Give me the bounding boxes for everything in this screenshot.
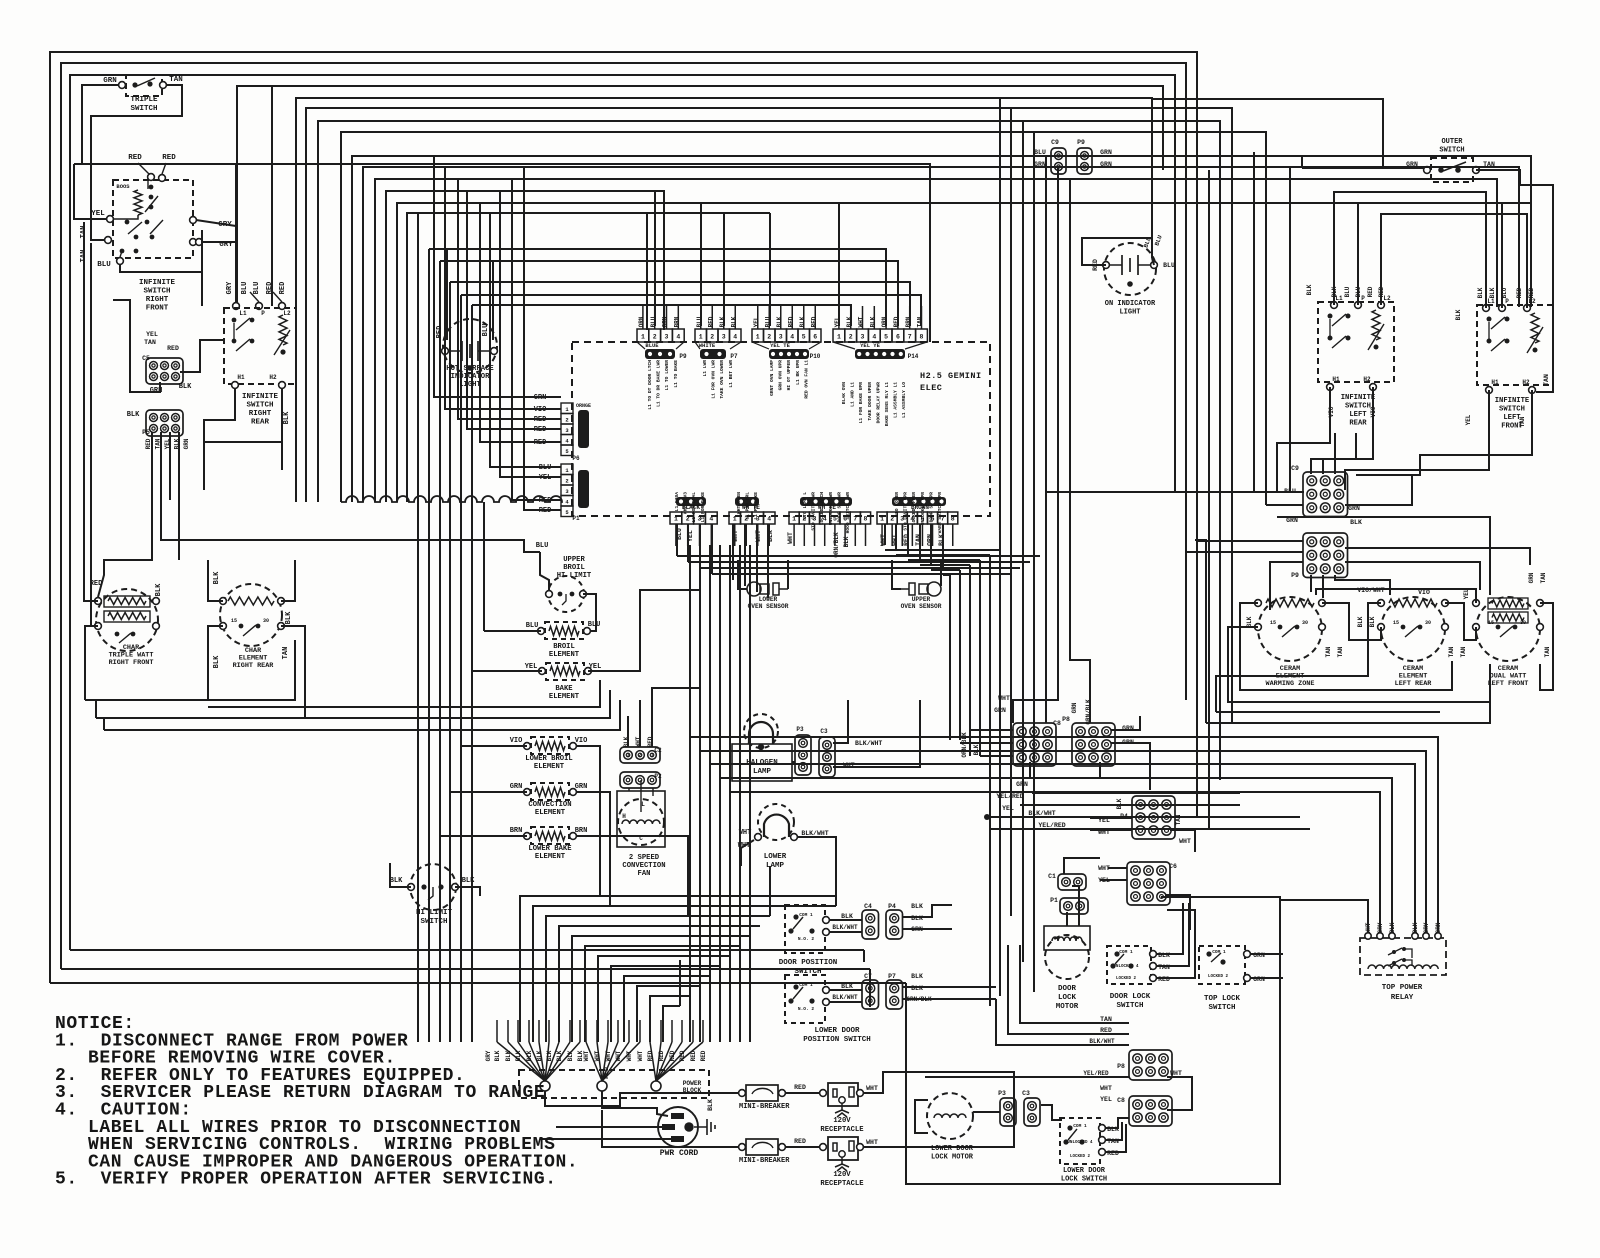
wire ceram interconnects — [1322, 603, 1381, 640]
svg-text:MINI-BREAKER: MINI-BREAKER — [739, 1103, 790, 1111]
svg-text:BAKE SENS RLY L1: BAKE SENS RLY L1 — [884, 382, 890, 426]
svg-text:WHT: WHT — [637, 1050, 644, 1061]
power block terminal 1 — [540, 1081, 550, 1091]
svg-text:L1 TO LOWER: L1 TO LOWER — [664, 360, 670, 391]
wire relay return bus 2 — [699, 545, 701, 1042]
svg-text:C5: C5 — [142, 355, 150, 362]
wire top bus 12 — [386, 191, 664, 502]
svg-text:TRIPLE: TRIPLE — [130, 96, 158, 104]
svg-text:RED: RED — [1367, 286, 1374, 297]
svg-text:4: 4 — [733, 334, 737, 341]
svg-text:LOWER DOOR: LOWER DOOR — [931, 1145, 974, 1153]
wire left rear H2 drop — [1311, 387, 1373, 474]
svg-text:GRNT OVN LAMP: GRNT OVN LAMP — [769, 360, 775, 396]
wire P8a right feeds — [1111, 716, 1140, 730]
svg-text:C8: C8 — [1053, 720, 1061, 727]
svg-text:WHT: WHT — [583, 1050, 590, 1061]
wire RED leader to L2 — [273, 292, 282, 302]
wire P9c drop1 — [1310, 575, 1312, 592]
svg-text:BLK: BLK — [179, 383, 192, 391]
wire right bundle 4 — [1033, 132, 1035, 992]
wire crossing bus y492 — [1046, 491, 1304, 493]
svg-text:L1: L1 — [239, 310, 247, 317]
svg-text:8: 8 — [920, 334, 924, 341]
svg-text:BRN: BRN — [575, 827, 588, 835]
wire lower broil loop — [461, 745, 527, 747]
svg-text:FAN: FAN — [638, 870, 651, 878]
wire top bus 6 — [306, 108, 1232, 723]
svg-text:1: 1 — [792, 516, 796, 523]
connector P5b side strip YELLOW — [561, 464, 573, 475]
wire ceram left loops — [1240, 603, 1452, 690]
svg-text:GRN: GRN — [1100, 149, 1112, 156]
wire pwr cord to block — [602, 1091, 668, 1116]
wire P7b BLK out — [903, 986, 996, 988]
wire right rear H1 drop — [204, 389, 235, 442]
svg-text:RED: RED — [788, 316, 795, 327]
svg-text:YEL: YEL — [1002, 805, 1014, 812]
wire P9c left feed 2 — [1186, 551, 1303, 553]
wire P9 GRN out right 2 — [1094, 167, 1519, 307]
120V receptacle J2 — [828, 1137, 858, 1160]
svg-text:HI OT UPPER: HI OT UPPER — [786, 360, 792, 391]
wire lower bake return — [577, 836, 688, 916]
svg-text:TAN: TAN — [1100, 1016, 1112, 1023]
svg-text:BLK: BLK — [911, 903, 923, 910]
svg-text:POWER: POWER — [683, 1080, 702, 1087]
svg-text:RED: RED — [794, 1138, 806, 1145]
wire outer switch GRN stub — [1302, 167, 1411, 169]
wire top bus 8 — [341, 132, 1266, 505]
wire outer switch TAN out — [1476, 170, 1553, 392]
svg-text:OVEN SENSOR: OVEN SENSOR — [901, 603, 942, 610]
infinite switch right rear SW3 terminals L1 P L2 — [233, 303, 240, 310]
wire hot surface indicator feed right — [492, 261, 494, 340]
svg-text:BAKE: BAKE — [555, 685, 573, 693]
svg-text:GRN: GRN — [1034, 161, 1046, 168]
svg-text:DOOR: DOOR — [1058, 985, 1077, 993]
svg-text:RED: RED — [436, 326, 444, 339]
connector P10 (door lock motor) — [1060, 898, 1088, 914]
wire fan-in WHT group — [586, 1042, 602, 1081]
svg-text:GRN OVN UPR: GRN OVN UPR — [778, 360, 784, 391]
svg-text:L1 AND L1: L1 AND L1 — [850, 382, 856, 407]
svg-text:SWITCH: SWITCH — [1116, 1002, 1143, 1010]
top lock switch SW9 — [1199, 946, 1245, 984]
svg-text:RED: RED — [903, 534, 910, 546]
wire left drop to loops — [95, 700, 97, 718]
wire bottom strip pin stubs — [675, 524, 677, 546]
wire board bottom bus 4 — [712, 573, 1010, 575]
wire P9c out right — [1345, 548, 1530, 565]
svg-text:COM 1: COM 1 — [1212, 949, 1226, 955]
svg-text:YEL: YEL — [1465, 414, 1472, 425]
connector C3 (halogen) — [819, 737, 835, 777]
svg-text:L1 POR BRL: L1 POR BRL — [745, 492, 751, 520]
svg-text:C2: C2 — [654, 747, 662, 754]
connector C3b (2-pin) — [1024, 1098, 1040, 1126]
svg-text:PWR CORD: PWR CORD — [660, 1149, 699, 1158]
wire pwr cord left feeds — [556, 1126, 662, 1128]
svg-text:SWITCH: SWITCH — [1439, 147, 1464, 155]
wire board bottom drop 3 — [699, 524, 701, 568]
svg-text:GRN: GRN — [510, 783, 523, 791]
svg-text:HI LIMIT: HI LIMIT — [416, 909, 453, 917]
connector C8 (3x3) — [1013, 723, 1056, 766]
wire center vertical D — [449, 282, 451, 1042]
wire P4b GRN out — [903, 928, 952, 930]
wire C5 bottom loop — [113, 300, 160, 392]
wire center column extra 1 — [739, 545, 741, 1042]
wire breaker2 to receptacle2 — [786, 1146, 820, 1148]
on indicator light DS4 — [1104, 243, 1156, 295]
char element right rear E2 — [220, 584, 282, 646]
svg-text:BLU: BLU — [526, 622, 539, 630]
wire bottom mesh 1 — [520, 896, 836, 1042]
wire C3 BLK/WHT — [833, 700, 848, 743]
wire left switch feed 3 — [1381, 214, 1527, 308]
svg-text:L1 FOR DUAL: L1 FOR DUAL — [691, 492, 697, 523]
svg-text:RED: RED — [658, 1050, 665, 1061]
wire char rear left terminals — [208, 560, 223, 601]
wire RED leader 1 — [138, 163, 149, 174]
svg-text:P8: P8 — [1062, 716, 1070, 723]
wire strip pin drop e — [838, 203, 840, 326]
wire border 2 bottom — [61, 968, 870, 970]
wire indicator left feed — [1082, 238, 1152, 265]
wire C3b out — [1041, 1105, 1062, 1120]
svg-text:BLK: BLK — [505, 1050, 512, 1061]
svg-text:TAN: TAN — [1519, 416, 1526, 427]
wire bake left drop — [472, 670, 542, 672]
wire P5 riser 4 — [178, 432, 180, 560]
svg-text:WHT: WHT — [998, 695, 1010, 702]
svg-text:P7: P7 — [888, 973, 896, 980]
svg-text:INFINITE: INFINITE — [1495, 397, 1530, 405]
wire block to breaker1 — [545, 1091, 738, 1106]
wire char front left terminals — [84, 222, 98, 601]
wire lower lamp left — [741, 840, 754, 866]
svg-text:4: 4 — [676, 334, 680, 341]
ceram element left rear E4 — [1381, 597, 1445, 661]
svg-text:TAN: TAN — [1460, 646, 1467, 657]
wire C6 feed 2 — [1100, 879, 1127, 881]
svg-text:MOTOR: MOTOR — [1056, 1003, 1079, 1011]
svg-text:30: 30 — [1425, 620, 1431, 626]
wire lower lock switch stubs — [1106, 1118, 1129, 1128]
svg-text:COM 1: COM 1 — [1073, 1123, 1087, 1129]
svg-text:L1 TO DT DOOR LTCH: L1 TO DT DOOR LTCH — [647, 360, 653, 410]
svg-text:P9: P9 — [1077, 139, 1085, 146]
wire C5 to switch loop — [180, 340, 224, 372]
wire char loop bottom 1 — [85, 640, 295, 700]
svg-text:RIGHT: RIGHT — [146, 296, 169, 304]
wire top bus 14 — [407, 213, 770, 502]
wire fan column risers — [496, 1020, 498, 1042]
lower door position switch SW7 — [785, 975, 825, 1023]
svg-text:3: 3 — [722, 334, 726, 341]
svg-text:BLK: BLK — [1116, 798, 1123, 809]
svg-text:BLK: BLK — [799, 316, 806, 327]
wire ceram loop 3 — [1216, 603, 1381, 712]
svg-text:LOWER BROIL: LOWER BROIL — [525, 755, 572, 763]
wire strip pin drop d — [769, 213, 771, 326]
svg-text:DOOR SW UPR: DOOR SW UPR — [928, 492, 934, 523]
svg-text:LOCKED 2: LOCKED 2 — [1208, 975, 1229, 979]
svg-text:BLK: BLK — [843, 536, 850, 547]
svg-text:LOCKED UPPER: LOCKED UPPER — [911, 492, 917, 525]
svg-text:CONVECTION: CONVECTION — [622, 862, 665, 870]
svg-text:COM 1: COM 1 — [799, 912, 813, 918]
svg-text:COM 1: COM 1 — [1119, 949, 1133, 955]
svg-text:YEL YE: YEL YE — [860, 342, 881, 349]
wire board bottom drop 7 — [756, 524, 758, 592]
lower door lock switch SW10 — [1060, 1118, 1100, 1164]
svg-text:RED: RED — [679, 1050, 686, 1061]
wire bottom mesh 6 — [585, 946, 740, 1042]
svg-text:YEL: YEL — [525, 663, 538, 671]
svg-text:HOOD SWITCH LWR: HOOD SWITCH LWR — [845, 492, 851, 534]
wire char loop bottom 4 — [104, 700, 620, 730]
wire element column riser — [483, 502, 485, 631]
svg-text:RED: RED — [145, 438, 152, 449]
svg-text:1: 1 — [699, 334, 703, 341]
svg-text:L2: L2 — [283, 310, 291, 317]
wire relay return bus 5 — [729, 545, 731, 1042]
svg-text:3: 3 — [665, 334, 669, 341]
svg-text:VIO: VIO — [510, 737, 523, 745]
wire strip pin drop b — [700, 203, 702, 326]
power block terminal 3 — [651, 1081, 661, 1091]
wire RED leader 2 — [162, 163, 166, 174]
svg-text:BLK: BLK — [283, 411, 291, 424]
wire TAN vertical 2 — [91, 243, 98, 626]
wire strip pin drop c — [723, 213, 725, 326]
wire top bus 4 — [237, 86, 1163, 306]
wire right bundle 7 — [1070, 179, 1090, 723]
svg-text:RED: RED — [279, 282, 287, 295]
connector J-WHITE (bottom of board) — [735, 497, 759, 506]
svg-text:TOP POWER: TOP POWER — [1382, 984, 1423, 992]
120V receptacle J1 — [828, 1083, 858, 1106]
svg-text:TAKE OVN LOWER: TAKE OVN LOWER — [719, 360, 725, 399]
svg-text:GRN: GRN — [103, 77, 117, 85]
wire right bundle 6 — [1013, 167, 1058, 723]
svg-text:30: 30 — [263, 618, 269, 624]
wire upper sensor right stub — [940, 560, 942, 586]
lower door lock motor M3 — [927, 1093, 973, 1139]
svg-text:VIO: VIO — [575, 737, 588, 745]
wire board bottom drop 1 — [676, 524, 678, 556]
svg-text:TAN: TAN — [144, 339, 156, 346]
svg-text:C6: C6 — [1169, 863, 1177, 870]
svg-text:WHT: WHT — [1100, 1085, 1112, 1092]
wire door lock sw out 2 — [1157, 903, 1189, 966]
svg-text:BLU: BLU — [696, 316, 703, 327]
svg-text:BLK: BLK — [1477, 287, 1484, 298]
wire top bus 13 — [397, 203, 1531, 502]
wire left rear switch feeds — [1334, 192, 1486, 308]
svg-text:BLU: BLU — [1163, 262, 1175, 269]
wire door lock sw outs — [1157, 903, 1183, 954]
infinite switch left rear SW12 — [1318, 302, 1394, 382]
wire C6 feeds — [1108, 867, 1127, 869]
wire bake right loop — [588, 590, 700, 671]
svg-text:BLK: BLK — [846, 316, 853, 327]
wire board bottom drop 8 — [767, 524, 769, 598]
wire C10 up — [1064, 858, 1100, 874]
svg-text:BLK: BLK — [707, 1099, 714, 1111]
wire left column 272 — [271, 86, 273, 306]
wire border 2 — [61, 63, 1186, 969]
wire fan-in BLK group — [497, 1042, 545, 1081]
svg-text:ORN: ORN — [638, 316, 645, 327]
svg-text:C3: C3 — [1022, 1090, 1030, 1097]
svg-text:ELEMENT: ELEMENT — [534, 763, 565, 771]
lower lamp DS3 — [758, 804, 794, 840]
door lock motor M2 — [1044, 926, 1090, 950]
svg-text:ELEMENT: ELEMENT — [549, 651, 580, 659]
wire brown bus 2 — [896, 554, 990, 556]
svg-text:UNLOCKED LWR: UNLOCKED LWR — [828, 492, 834, 525]
svg-text:BLU: BLU — [482, 324, 490, 337]
wire mid bus 4 — [461, 295, 921, 326]
wire GRY 2 stub — [202, 241, 236, 243]
svg-text:BLK: BLK — [155, 583, 163, 596]
wire char right terms — [281, 560, 295, 601]
svg-text:4: 4 — [709, 516, 713, 523]
svg-text:L1 PR BAKE: L1 PR BAKE — [753, 492, 759, 520]
upper broil hi limit SW4 — [548, 576, 584, 612]
ceram dual watt left front E5 — [1476, 597, 1540, 661]
svg-text:1: 1 — [756, 334, 760, 341]
svg-text:LAMP: LAMP — [766, 862, 785, 870]
wire strip pin drop a — [654, 191, 656, 326]
connector P5 (6-pin) — [146, 410, 183, 436]
wire brown bus 4 — [920, 564, 970, 566]
wire bottom mesh 9 — [624, 976, 710, 1042]
svg-text:BLK/WHT: BLK/WHT — [1028, 810, 1055, 817]
svg-text:2 SPEED: 2 SPEED — [629, 854, 660, 862]
svg-text:4: 4 — [767, 516, 771, 523]
wire C9b col feed 2 — [1323, 433, 1356, 474]
wire center vertical F — [471, 305, 473, 1042]
wire ceram right loop — [1540, 603, 1553, 690]
wire block to breaker2 — [602, 1110, 738, 1147]
svg-text:C8: C8 — [1117, 1097, 1125, 1104]
svg-text:1: 1 — [674, 516, 678, 523]
svg-text:4: 4 — [790, 334, 794, 341]
svg-text:BLUE: BLUE — [645, 342, 659, 349]
wire P9c left feeds — [1197, 540, 1303, 542]
wire bottom border — [906, 897, 1280, 1184]
connector P8 (3x2 lower) — [1129, 1050, 1172, 1080]
wire RED feed 3 to P6 — [480, 203, 561, 442]
svg-text:GRN: GRN — [1348, 505, 1360, 512]
svg-text:SWITCH: SWITCH — [1499, 406, 1525, 414]
svg-text:H1: H1 — [1332, 376, 1340, 383]
svg-text:OVEN SENSOR: OVEN SENSOR — [748, 603, 789, 610]
lower oven sensor RT1 — [747, 582, 761, 596]
wire P9c out left — [1270, 562, 1303, 610]
svg-text:DOOR LOCK: DOOR LOCK — [1110, 993, 1151, 1001]
svg-text:30: 30 — [1302, 620, 1308, 626]
wire mid bus 3 — [450, 282, 910, 326]
connector strip P9 (top, 4-pin) — [637, 329, 649, 342]
connector P4c (3x3) — [1132, 796, 1175, 839]
svg-text:ELEC: ELEC — [920, 383, 942, 393]
wire brown bus 3 — [908, 559, 980, 561]
wire between C8 P8a bottom — [1030, 762, 1100, 778]
svg-text:UNLOCKED UPR: UNLOCKED UPR — [920, 492, 926, 525]
wire right bundle 5 — [1045, 156, 1047, 723]
wire top bus 9 — [352, 156, 1302, 502]
wire breaker1 to receptacle1 — [786, 1092, 820, 1094]
wire lower sensor right stub — [787, 560, 789, 589]
svg-text:L1 ASSMBLY L1: L1 ASSMBLY L1 — [893, 382, 899, 418]
svg-text:BLK: BLK — [1350, 519, 1362, 526]
svg-text:P8: P8 — [1117, 1063, 1125, 1070]
svg-text:BLK: BLK — [546, 1050, 553, 1061]
wire motor to P3b — [973, 1111, 1000, 1113]
svg-text:LEFT FRONT: LEFT FRONT — [1488, 680, 1529, 688]
svg-text:BLK: BLK — [1489, 287, 1496, 298]
svg-text:8: 8 — [864, 516, 868, 523]
svg-text:SWITCH: SWITCH — [143, 288, 170, 296]
wire border 3 bottom — [70, 949, 864, 951]
svg-text:ON INDICATOR: ON INDICATOR — [1105, 300, 1156, 308]
wire board bottom drop 4 — [711, 524, 713, 574]
connector J-WHITE2 (bottom 8-pin) — [800, 497, 852, 506]
wire relay return bus 1 — [689, 545, 691, 1042]
wire center vertical C — [439, 261, 441, 1042]
svg-text:TAN: TAN — [1325, 646, 1332, 657]
svg-text:L1 TO BAKE: L1 TO BAKE — [673, 360, 679, 388]
svg-text:P7: P7 — [730, 353, 738, 360]
wire lock sw stub 2 — [1106, 1122, 1122, 1140]
wire halogen to P3 — [792, 761, 795, 763]
wire upper broil to broil element — [583, 594, 596, 631]
svg-text:SWITCH: SWITCH — [1208, 1004, 1235, 1012]
svg-text:GRN: GRN — [662, 316, 669, 327]
svg-text:LIGHT: LIGHT — [459, 381, 481, 389]
svg-text:P6: P6 — [572, 455, 580, 462]
wire top bus 10 — [363, 167, 1290, 502]
wire C3 WHT — [833, 700, 920, 767]
wire pwr cord ground — [694, 1126, 707, 1128]
svg-text:RED: RED — [811, 316, 818, 327]
svg-text:BROIL: BROIL — [563, 564, 585, 572]
svg-text:L1 P30A: L1 P30A — [674, 492, 680, 512]
svg-text:LEFT REAR: LEFT REAR — [1395, 680, 1433, 688]
mini-breaker CB1 — [746, 1085, 778, 1101]
wire BLK/WHT bus to P8 — [996, 999, 1129, 1045]
wire P9c drop2 — [1322, 575, 1324, 598]
wire board bottom drop 5 — [732, 524, 734, 580]
wire fan-in RED group — [650, 1042, 656, 1081]
svg-text:5. VERIFY PROPER OPERATION AF: 5. VERIFY PROPER OPERATION AFTER SERVICI… — [55, 1170, 557, 1190]
svg-text:BLU: BLU — [765, 316, 772, 327]
wire bottom mesh 8 — [611, 966, 720, 1042]
svg-text:ORN/BLK: ORN/BLK — [961, 732, 968, 758]
svg-text:MINI-BREAKER: MINI-BREAKER — [739, 1157, 790, 1165]
svg-text:INFINITE: INFINITE — [242, 393, 279, 401]
outer switch SW11 — [1431, 158, 1473, 182]
svg-text:TAN: TAN — [1540, 572, 1547, 583]
connector C5 (6-pin) — [146, 358, 183, 384]
svg-text:WHT: WHT — [866, 1085, 878, 1092]
svg-text:L1 TO DR BAKE LWR: L1 TO DR BAKE LWR — [656, 360, 662, 407]
